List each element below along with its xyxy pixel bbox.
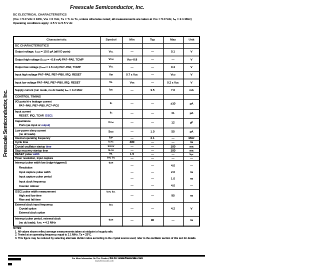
two-line rows <box>15 100 52 103</box>
footer rule <box>8 255 205 256</box>
footer center line 1 <box>72 257 143 260</box>
group row 1 <box>15 161 67 164</box>
footer left bar <box>8 258 21 260</box>
page header: Freescale Semiconductor, Inc. <box>70 5 144 10</box>
footer left square <box>8 263 12 265</box>
footer center line 2 <box>95 260 114 262</box>
last row <box>15 217 61 220</box>
notes <box>13 227 22 229</box>
vertical column lines <box>99 36 102 227</box>
section header B <box>15 95 41 98</box>
thin rows <box>15 137 50 140</box>
title line 3 <box>13 22 72 25</box>
table outer border <box>13 36 200 227</box>
group row 2 <box>15 190 56 193</box>
title line 2 <box>13 18 192 21</box>
data rows upper block <box>15 50 70 53</box>
section header A <box>15 44 49 47</box>
horizontal row lines <box>13 42 200 45</box>
group row 3 <box>15 203 53 206</box>
left margin rotated text: Freescale Semiconductor, Inc. <box>3 90 8 157</box>
title line 1 <box>13 13 67 16</box>
